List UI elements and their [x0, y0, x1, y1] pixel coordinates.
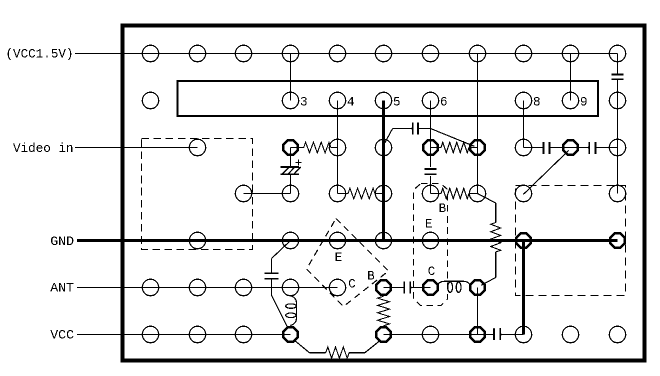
wire col8 pad row3 to row4 — [477, 148, 479, 194]
svg-text:4: 4 — [347, 96, 355, 110]
pad P1 (video coupling) — [283, 140, 297, 154]
svg-text:C: C — [428, 265, 436, 279]
pad P3 — [470, 140, 484, 154]
wire cap C3 to hole row4 — [430, 176, 432, 194]
wire node pin6 to pad col8 diagonal — [431, 129, 475, 147]
label VCC — [50, 327, 74, 342]
pad P12 (VCC) — [470, 327, 484, 341]
wire pin9 riser — [570, 54, 572, 101]
pin label 8 — [533, 96, 541, 110]
wire cap C9 to col9 hole — [500, 334, 523, 336]
wire cap C1 to hole row4 — [290, 175, 292, 193]
pad P5 (GND) — [516, 233, 530, 247]
wire pad col10 diagonal to col9 row4 — [523, 150, 569, 194]
wire pad col10 to cap C5 — [571, 147, 590, 149]
label Q2 emitter E — [425, 218, 433, 232]
wire pad col8 row6 to VCC row — [477, 288, 479, 335]
row 7 pad holes — [142, 326, 625, 342]
net GND rail wire — [77, 239, 618, 241]
capacitor C5 — [589, 142, 595, 154]
transistor Q2 outline — [414, 184, 448, 306]
capacitor C4 — [543, 142, 549, 154]
resistor R1 — [291, 142, 338, 153]
net VCC rail wire right segment — [384, 334, 478, 336]
capacitor C3 — [425, 169, 437, 174]
wire cap C6 to pad col4 VCC row — [272, 279, 288, 328]
pin label 9 — [580, 96, 588, 110]
node Video in leader wire — [75, 147, 198, 149]
wire col9 row3 to cap C4 — [524, 147, 544, 149]
net ANT rail wire — [77, 287, 338, 289]
label ANT — [50, 281, 74, 296]
pin label 4 — [347, 96, 355, 110]
row 5 pad holes — [189, 232, 438, 248]
svg-text:E: E — [425, 218, 433, 232]
svg-text:6: 6 — [440, 96, 448, 110]
pad P8 (Q2 collector) — [423, 280, 437, 294]
wire pad col6 to cap C8 — [384, 287, 405, 289]
wire GND node to cap C6 — [272, 241, 291, 274]
svg-text:3: 3 — [300, 96, 308, 110]
IC U1 body — [178, 81, 599, 116]
wire cap C5 to col11 row3 — [595, 147, 617, 149]
row 2 pad holes — [142, 92, 625, 108]
wire pad col4 to cap C1 — [290, 148, 292, 167]
resistor R3 — [338, 188, 384, 199]
label Q1 base B — [367, 269, 375, 283]
wire cap C8 to pad col7 — [410, 287, 430, 289]
wire resistor R5 to pad col8 row6 — [481, 252, 496, 285]
row 3 pad holes — [189, 139, 625, 155]
wire col8 row1 to pad — [477, 54, 479, 148]
wire row4 col3 to col4 — [244, 193, 291, 195]
svg-text:E: E — [335, 251, 343, 265]
transistor Q1 outline — [307, 219, 389, 307]
label Q2 base B — [439, 202, 447, 216]
capacitor C9 — [494, 328, 500, 340]
resistor R5 — [491, 223, 501, 253]
net VCC rail wire — [77, 334, 291, 336]
pad P4 — [563, 140, 577, 154]
pad P11 (VCC) — [376, 327, 390, 341]
pin label 6 — [440, 96, 448, 110]
svg-text:GND: GND — [50, 234, 74, 249]
board outline — [123, 26, 645, 361]
svg-text:VCC: VCC — [50, 327, 74, 342]
resistor R7 bottom detour — [295, 340, 381, 358]
pad P7 (Q1 base) — [376, 280, 390, 294]
label GND — [50, 234, 74, 249]
pad P9 — [470, 280, 484, 294]
capacitor C6 — [265, 273, 279, 278]
label (VCC1.5V) — [5, 48, 73, 62]
wire col11 row3 to row4 — [617, 148, 619, 194]
pin label 5 — [393, 96, 401, 110]
wire cap C2 left lead — [384, 129, 413, 146]
svg-text:(VCC1.5V): (VCC1.5V) — [5, 48, 73, 62]
label Q1 emitter E — [335, 251, 343, 265]
dashed module outline (right block) — [516, 186, 626, 296]
row 1 pad holes — [142, 45, 625, 61]
svg-text:8: 8 — [533, 96, 541, 110]
wire cap C2 right lead — [418, 128, 430, 130]
svg-text:C: C — [348, 277, 356, 291]
label Video in — [13, 142, 73, 156]
capacitor C8 — [404, 281, 410, 293]
inductor L2 — [438, 281, 471, 292]
wire pin4 drop — [337, 101, 339, 148]
capacitor C2 — [413, 123, 418, 135]
resistor R6 — [378, 296, 390, 326]
pin label 3 — [300, 96, 308, 110]
label Q1 collector C — [348, 277, 356, 291]
row 6 pad holes — [142, 279, 345, 295]
wire pin5 bold drop to GND — [382, 101, 385, 241]
wire col11 cap to row3 — [617, 79, 619, 147]
svg-text:Video in: Video in — [13, 142, 73, 156]
svg-text:ANT: ANT — [50, 281, 74, 296]
wire bold pad col9 GND to VCC row — [522, 241, 525, 335]
wire pin8 drop — [523, 101, 525, 148]
svg-text:5: 5 — [393, 96, 401, 110]
wire pad col8 to cap C9 — [478, 334, 495, 336]
capacitor C7 (VCC1.5V decoupling) — [612, 75, 624, 80]
row 4 pad holes — [235, 185, 625, 201]
dashed module outline (video in block) — [142, 139, 253, 250]
inductor L1 — [286, 296, 297, 326]
wire col5 row3 to row4 — [337, 148, 339, 194]
svg-text:B: B — [439, 202, 447, 216]
wire col8 row4 to resistor R5 — [478, 194, 496, 223]
svg-text:9: 9 — [580, 96, 588, 110]
wire col11 row1 to cap — [617, 54, 619, 75]
pad P6 (GND right) — [610, 233, 624, 247]
capacitor C1 electrolytic hatching — [282, 167, 300, 174]
resistor R2 — [431, 142, 478, 153]
svg-text:B: B — [367, 269, 375, 283]
wire cap C4 to pad col10 — [550, 147, 571, 149]
capacitor C1 electrolytic plus mark — [295, 159, 301, 165]
label Q2 collector C — [428, 265, 436, 279]
pad P2 (pin6 node) — [423, 140, 437, 154]
pad P10 (VCC) — [283, 327, 297, 341]
wire pin3 riser — [290, 54, 292, 101]
wire pin6 drop — [430, 101, 432, 148]
resistor R4 — [431, 188, 478, 199]
capacitor C1 electrolytic plates — [280, 167, 299, 174]
net (VCC1.5V) rail wire — [75, 53, 618, 55]
wire pad col7 to cap C3 — [430, 148, 432, 168]
